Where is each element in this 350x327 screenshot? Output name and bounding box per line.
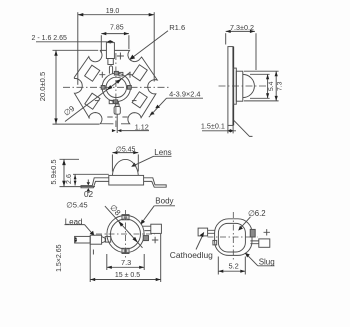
svg-text:∅9: ∅9 (62, 104, 76, 118)
polarity minus left of bottom lead (107, 116, 112, 118)
svg-text:5.4: 5.4 (268, 81, 275, 91)
leader line lower right of board (234, 121, 253, 137)
pcb board edge view (228, 47, 233, 126)
bottom lead neck (115, 104, 119, 106)
LED package outer circle (102, 73, 130, 101)
bottom lead stem (116, 101, 119, 104)
left lead foot bar (75, 236, 91, 243)
svg-text:∅8: ∅8 (108, 203, 123, 218)
svg-text:Lens: Lens (154, 148, 171, 157)
dimension 5.9+-0.5 (49, 159, 95, 186)
label Lead (65, 217, 95, 236)
tab S (122, 248, 129, 253)
star centerline vertical (115, 53, 117, 127)
anode tab dark (250, 229, 255, 237)
emitter body rect (109, 175, 144, 185)
svg-text:R1.6: R1.6 (169, 23, 185, 32)
top lead stem (109, 66, 112, 74)
tab N (122, 215, 129, 220)
label Cathoedlug (170, 232, 213, 260)
solder pad upper-right (132, 65, 147, 81)
svg-text:20.0±0.5: 20.0±0.5 (38, 72, 47, 102)
dimension 7.3 bottom-left (107, 254, 144, 270)
svg-text:7.3: 7.3 (277, 81, 284, 91)
polarity plus left of circle (99, 72, 105, 78)
plus bottom-right view (264, 229, 270, 235)
LED package inner circle (106, 77, 126, 97)
tab W (105, 237, 111, 243)
dimension 2.6 (64, 174, 109, 186)
svg-text:7.3±0.2: 7.3±0.2 (230, 23, 254, 32)
dimension 5.4 (250, 74, 275, 98)
centerline side view (219, 85, 267, 87)
centerline vertical bottom-left view (125, 210, 127, 259)
anode lead neck (250, 241, 258, 244)
package tab N (114, 71, 118, 75)
dimension 0.2 lead thickness (84, 180, 94, 200)
svg-text:1.5×2.65: 1.5×2.65 (56, 244, 63, 272)
centerline horizontal bottom-right view (208, 236, 259, 238)
led flange (233, 68, 236, 104)
polarity plus near top lead (117, 53, 124, 60)
dimension phi5.45 (112, 146, 138, 171)
svg-text:1.12: 1.12 (135, 123, 149, 132)
package tab E (128, 86, 132, 90)
svg-text:7.3: 7.3 (121, 258, 131, 267)
led body step (236, 71, 243, 101)
package tab W (101, 86, 105, 90)
svg-text:5.9±0.5: 5.9±0.5 (49, 159, 58, 184)
centerline vertical bottom-right view (232, 212, 234, 262)
svg-text:1.5±0.1: 1.5±0.1 (201, 122, 225, 131)
solder pad upper-left (85, 65, 100, 81)
right lead neck (143, 226, 151, 230)
package tab S (114, 100, 118, 104)
star board outline (74, 50, 157, 123)
dimension 1.12 (112, 115, 149, 134)
polarity minus right of bottom lead (122, 116, 127, 118)
package tab SW (109, 100, 113, 103)
package inner circle bottom-left view (111, 219, 141, 249)
svg-text:2.6: 2.6 (64, 174, 73, 184)
tab E dark (143, 236, 148, 241)
dimension 1.5+-0.1 (201, 122, 236, 134)
dimension 1.5x2.65 lead section (56, 237, 77, 272)
top lead neck (108, 59, 113, 65)
dimension 5.2 (218, 257, 245, 275)
left lead gullwing (81, 178, 109, 188)
small tab left edge of slug (213, 240, 217, 245)
led dome (243, 74, 255, 97)
label Slug (245, 253, 275, 267)
svg-text:4-3.9×2.4: 4-3.9×2.4 (169, 90, 200, 99)
slug inner outline (218, 223, 245, 252)
left lead neck trapezoid (102, 237, 106, 243)
svg-text:∅5.45: ∅5.45 (66, 200, 87, 209)
dimension 7.3+-0.2 (226, 23, 256, 70)
svg-text:15 ± 0.5: 15 ± 0.5 (115, 272, 140, 279)
solder pad lower-right (132, 92, 147, 108)
svg-text:19.0: 19.0 (106, 8, 120, 15)
package outer circle bottom-left view (107, 215, 144, 252)
dimension 7.3 vertical (244, 71, 284, 101)
solder pad lower-left (85, 93, 100, 109)
cathode lug rect (198, 228, 208, 236)
dimension 20.0+-0.5 (38, 50, 99, 124)
leader 4-3.9x2.4 (149, 90, 203, 118)
dimension phi9 diagonal (62, 72, 130, 122)
right lead gullwing (144, 178, 167, 187)
minus tick left lead (92, 250, 94, 255)
anode lead wide part (259, 239, 270, 247)
centerline horizontal bottom-left view (96, 233, 155, 235)
left lead wide part (90, 235, 101, 244)
svg-text:∅6.2: ∅6.2 (248, 209, 266, 218)
plus right of package (152, 237, 158, 243)
svg-text:5.2: 5.2 (228, 261, 238, 270)
package tab NE (119, 72, 123, 76)
svg-text:Slug: Slug (259, 258, 275, 267)
svg-text:Cathoedlug: Cathoedlug (170, 251, 213, 260)
slug outer outline (215, 219, 252, 256)
svg-text:02: 02 (84, 190, 94, 199)
polarity plus right of circle (127, 72, 133, 78)
leader 2-1.6 2.65 (32, 35, 114, 44)
bottom lead body (114, 106, 120, 114)
label Lens (131, 148, 171, 167)
polarity minus lower-left of circle (95, 100, 100, 102)
dimension phi8 diagonal (105, 203, 143, 248)
dimension 7.85 (101, 25, 129, 53)
label Body (141, 197, 176, 225)
star centerline horizontal (63, 86, 169, 88)
right lead wide part (151, 224, 162, 233)
dimension 15+-0.5 (90, 234, 161, 282)
svg-text:2 - 1.6 2.65: 2 - 1.6 2.65 (32, 35, 68, 42)
leader R1.6 (129, 23, 185, 60)
cathode lug neck (208, 230, 215, 233)
emitter dome (112, 159, 138, 175)
polarity minus lower-right of circle (132, 100, 137, 102)
top lead rect (106, 43, 114, 59)
label phi6.2 (238, 209, 265, 231)
svg-text:Body: Body (155, 197, 173, 206)
svg-text:7.85: 7.85 (110, 25, 124, 32)
dimension 19.0 (78, 8, 154, 85)
